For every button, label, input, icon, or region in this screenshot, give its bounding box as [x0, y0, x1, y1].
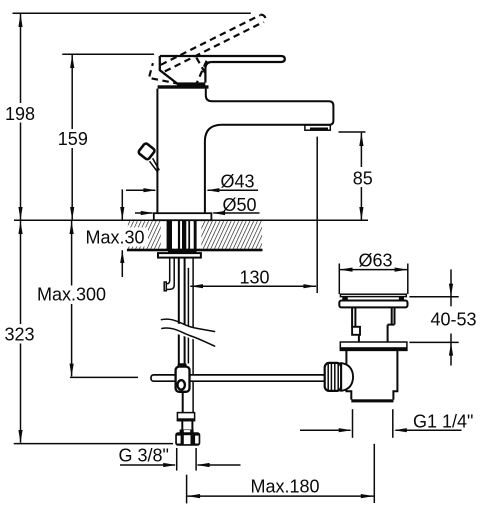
left supply hose with elbow stub: [164, 258, 174, 291]
dim Max.30 upper stub: [121, 189, 123, 219]
dim 85 line: [360, 133, 362, 220]
dim Max.300 top arrow: [70, 221, 74, 234]
white gap for faucet shank through deck: [161, 221, 202, 248]
svg-text:Ø50: Ø50: [223, 195, 257, 215]
body top dark cap: [158, 85, 209, 88]
right tube line: [192, 258, 194, 413]
body top extension line: [62, 53, 154, 55]
dashed tilted cartridge bottom edge: [152, 78, 198, 87]
horizontal pop-up actuating rod: [151, 375, 326, 381]
dim 323 line: [20, 221, 22, 443]
dim D43 leader underline: [208, 189, 259, 191]
dim Max.300 line: [71, 221, 73, 376]
dim G1 1/4 left arrow line: [300, 429, 351, 431]
pop-up lift rod line: [187, 268, 189, 364]
waste locknut: [340, 342, 407, 350]
dim 40-53 upper line: [450, 269, 452, 306]
pop-up waste: plug disc: [340, 294, 406, 296]
waste upper body walls: [352, 307, 394, 342]
dim 198 line: [20, 14, 22, 220]
stub tube to nut: [181, 421, 183, 430]
pipe break symbol white band: [161, 320, 216, 346]
dashed lever tip arc: [260, 15, 265, 23]
dim G 3/8 right arrow line: [198, 464, 241, 466]
dim 85 top arrow: [359, 133, 363, 146]
escutcheon base plate: [154, 213, 212, 220]
plug edge blocks: [342, 297, 348, 300]
svg-text:Ø63: Ø63: [359, 250, 393, 270]
svg-text:198: 198: [5, 104, 35, 124]
water stream / drain reach extension line: [316, 137, 318, 293]
dim Max.30 lower arrow: [120, 250, 124, 263]
dashed tilted cartridge right edge: [196, 61, 206, 84]
dim 85 extension line at aerator: [339, 131, 366, 133]
dim G1 1/4 right arrow line: [396, 429, 462, 431]
dashed raised lever lower line: [165, 22, 264, 71]
dim 130 line: [190, 285, 316, 287]
dim Max.300 bottom arrow: [70, 364, 74, 377]
lever to cartridge fillet: [205, 62, 211, 83]
dim 85 bottom arrow: [359, 207, 363, 220]
spout aerator: [305, 125, 330, 130]
deck bottom line: [127, 249, 263, 252]
dim 323 bottom reference line: [14, 443, 173, 445]
tail tube bottom edge: [351, 399, 393, 402]
top extension line (raised lever height): [13, 12, 251, 14]
dim 323 top arrow: [18, 221, 22, 234]
waste flange: [339, 301, 407, 308]
dim G 3/8 extension lines: [176, 448, 178, 471]
svg-text:G1 1/4": G1 1/4": [413, 411, 473, 431]
dim 40-53 top extension line: [409, 296, 458, 298]
dim 130 left arrow: [190, 284, 203, 288]
svg-text:40-53: 40-53: [431, 309, 477, 329]
dim Max.300 text: [35, 286, 105, 305]
dim Max.180 right extension line: [373, 444, 375, 503]
break wave upper: [161, 319, 215, 332]
waste tail tube: [346, 350, 397, 399]
dim D63 extension lines: [338, 264, 340, 295]
dim 198 text: [3, 103, 39, 123]
dim 130 right arrow: [303, 284, 316, 288]
dim D50 leader underline: [213, 212, 259, 214]
mounting nut under deck: [158, 253, 201, 258]
connector bell: [341, 363, 353, 391]
svg-text:Max.180: Max.180: [251, 476, 320, 496]
dashed raised lever upper line: [161, 15, 260, 65]
rod to waste connector barrel: [325, 363, 342, 391]
svg-text:G 3/8": G 3/8": [119, 445, 169, 465]
dim 198 bottom arrow: [18, 207, 22, 220]
G 3/8 compression nut: [175, 430, 200, 446]
dim Max.180 left arrow: [187, 494, 200, 498]
dim Max.180 line: [187, 495, 373, 497]
svg-text:159: 159: [58, 129, 88, 149]
dashed pivot stroke: [196, 58, 205, 73]
hose union fitting: [177, 413, 194, 421]
dim Max.180 right arrow: [361, 494, 374, 498]
tee cam oval: [178, 380, 185, 389]
faucet shank thread bars below deck: [167, 221, 197, 250]
Max.30 label background: [84, 228, 149, 247]
faucet body and spout outline: [157, 89, 333, 214]
waste clip notch: [352, 327, 360, 335]
shank collar band below deck: [168, 250, 197, 254]
cartridge base dark seam: [177, 82, 205, 85]
dim 159 text: [55, 129, 88, 148]
dashed tilted cartridge left edge: [149, 63, 153, 76]
dim Max.180 left extension line: [186, 475, 188, 504]
dim 198 top arrow: [18, 14, 22, 27]
dim D63 right arrow: [395, 268, 408, 272]
tube below tee: [182, 392, 184, 413]
rod tee block on supply tube: [176, 363, 190, 392]
svg-text:323: 323: [5, 325, 35, 345]
dim 40-53 lower line: [450, 334, 452, 366]
dim 323 text: [2, 324, 38, 344]
Max.300 rod reference line: [70, 376, 138, 378]
main supply tube lines: [178, 258, 180, 367]
dim D43 left arrow line: [126, 189, 155, 191]
dim 159 bottom arrow: [70, 207, 74, 220]
deck top surface line: [14, 219, 368, 221]
svg-text:Ø43: Ø43: [221, 171, 255, 191]
dim D63 line: [339, 269, 408, 271]
dim G1 1/4 extension lines: [352, 409, 354, 438]
dim Max.30 upper arrow: [120, 207, 124, 220]
dim 159 line: [71, 55, 73, 220]
dim D50 left arrow line: [135, 212, 153, 214]
lever handle (solid, horizontal): [160, 56, 285, 85]
dim 159 top arrow: [70, 55, 74, 68]
dim 40-53 bottom extension line: [409, 341, 458, 343]
countertop deck hatched section: [14, 220, 368, 251]
svg-text:85: 85: [353, 169, 373, 189]
svg-text:130: 130: [240, 267, 270, 287]
dim Max.30 lower stub: [121, 250, 123, 277]
break wave lower: [161, 328, 215, 346]
svg-text:Max.300: Max.300: [37, 285, 106, 305]
dim 323 bottom arrow: [18, 430, 22, 443]
dim 85 text: [351, 167, 374, 187]
dim G 3/8 left arrow line: [120, 464, 175, 466]
side diverter knob: [138, 143, 160, 173]
svg-text:Max.30: Max.30: [86, 228, 145, 248]
dim D63 left arrow: [340, 268, 353, 272]
